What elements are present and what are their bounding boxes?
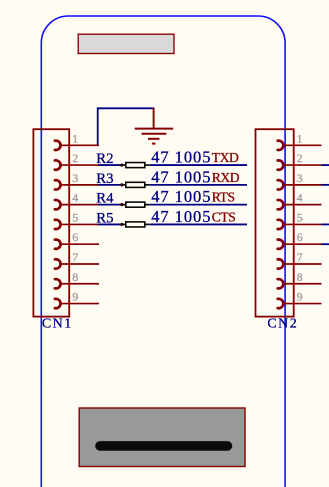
svg-text:RTS: RTS — [212, 190, 235, 205]
CN1 pin 6 — [55, 230, 99, 249]
svg-text:8: 8 — [72, 270, 78, 284]
CN2 pin 3 — [278, 171, 322, 190]
CN2 pin 1 — [278, 131, 322, 150]
wire RTS net — [150, 204, 247, 206]
svg-text:47 1005: 47 1005 — [151, 148, 211, 167]
svg-text:3: 3 — [72, 171, 78, 185]
wire CTS net — [150, 223, 247, 225]
CN1 pin 7 — [55, 250, 99, 269]
top shield pad — [78, 34, 174, 53]
CN1 pin 4 — [55, 191, 99, 210]
svg-text:3: 3 — [297, 171, 303, 185]
CN2 pin 5 — [278, 210, 322, 229]
svg-text:7: 7 — [297, 250, 303, 264]
wire — [322, 184, 329, 186]
resistor R2 — [120, 163, 150, 168]
svg-text:CTS: CTS — [212, 209, 236, 224]
svg-text:4: 4 — [72, 191, 78, 205]
svg-text:8: 8 — [297, 270, 303, 284]
connector CN1 — [33, 129, 69, 316]
CN2 pin 6 — [278, 230, 322, 249]
wire GND net — [98, 108, 154, 145]
wire TXD net — [150, 164, 247, 166]
svg-text:2: 2 — [72, 151, 78, 165]
svg-text:1: 1 — [297, 131, 303, 145]
svg-text:CN2: CN2 — [267, 317, 298, 332]
wire CN1 pin 5 to R5 — [98, 223, 122, 225]
wire CN1 pin 2 to R2 — [98, 164, 122, 166]
resistor R3 — [120, 182, 150, 187]
CN1 pin 1 — [55, 131, 99, 150]
svg-text:TXD: TXD — [212, 150, 239, 165]
svg-text:7: 7 — [72, 250, 78, 264]
connector CN2 — [256, 129, 294, 316]
CN1 pin 5 — [55, 210, 99, 229]
svg-text:5: 5 — [72, 210, 78, 224]
svg-text:47 1005: 47 1005 — [151, 187, 211, 206]
wire — [322, 164, 329, 166]
svg-text:RXD: RXD — [212, 170, 240, 185]
svg-text:2: 2 — [297, 151, 303, 165]
CN1 pin 3 — [55, 171, 99, 190]
wire — [322, 223, 329, 225]
CN2 pin 9 — [278, 290, 322, 309]
wire CN1 pin 4 to R4 — [98, 204, 122, 206]
svg-text:9: 9 — [72, 290, 78, 304]
svg-text:6: 6 — [297, 230, 303, 244]
CN2 pin 7 — [278, 250, 322, 269]
svg-text:R2: R2 — [96, 151, 113, 167]
CN2 pin 4 — [278, 191, 322, 210]
svg-text:1: 1 — [72, 131, 78, 145]
CN1 pin 8 — [55, 270, 99, 289]
wire — [322, 243, 329, 245]
svg-text:R4: R4 — [96, 191, 114, 207]
wire RXD net — [150, 184, 247, 186]
CN1 pin 9 — [55, 290, 99, 309]
CN1 pin 2 — [55, 151, 99, 170]
svg-text:R5: R5 — [96, 211, 113, 227]
resistor R4 — [120, 202, 150, 207]
svg-text:47 1005: 47 1005 — [151, 207, 211, 226]
USB connector slot — [100, 441, 228, 451]
board outline — [41, 16, 285, 487]
wire CN1 pin 3 to R3 — [98, 184, 122, 186]
ground — [135, 108, 174, 144]
resistor R5 — [120, 222, 150, 227]
svg-text:CN1: CN1 — [42, 317, 73, 332]
svg-text:9: 9 — [297, 290, 303, 304]
USB connector body — [79, 408, 245, 467]
CN2 pin 2 — [278, 151, 322, 170]
svg-text:4: 4 — [297, 191, 303, 205]
svg-text:6: 6 — [72, 230, 78, 244]
CN2 pin 8 — [278, 270, 322, 289]
svg-text:5: 5 — [297, 210, 303, 224]
svg-text:R3: R3 — [96, 171, 113, 187]
svg-text:47 1005: 47 1005 — [151, 167, 211, 186]
